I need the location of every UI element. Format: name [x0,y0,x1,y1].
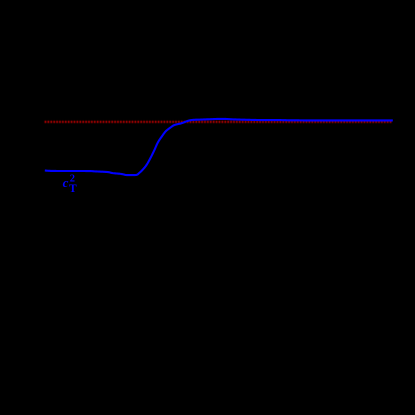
red dotted asymptote line y=1 [45,121,393,123]
svg-text:c: c [63,175,69,190]
svg-text:T: T [69,183,77,195]
label c^2_T [63,174,77,196]
blue c_T^2 curve [45,119,393,175]
